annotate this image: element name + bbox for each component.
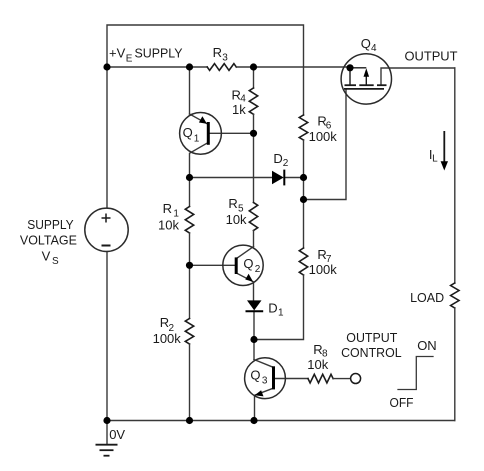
svg-text:R: R: [163, 201, 172, 216]
label R4 1k: [232, 87, 247, 117]
wire top bypass and R6 column top: [107, 25, 304, 115]
control input open terminal: [351, 374, 361, 384]
svg-text:D: D: [268, 301, 277, 316]
svg-text:10k: 10k: [307, 357, 328, 372]
resistor R7: [299, 248, 307, 275]
wire gate node to R7: [303, 200, 305, 249]
svg-text:SUPPLY: SUPPLY: [27, 217, 74, 232]
label D2: [273, 151, 288, 169]
wire D1 cathode stub: [253, 311, 255, 340]
label R3: [213, 45, 229, 64]
Q4 source leg: [349, 68, 351, 85]
waveform ON-OFF step: [398, 357, 433, 390]
wire Q3 emitter diagonal: [255, 389, 273, 421]
resistor R5: [249, 203, 257, 231]
node: 0V Q3 emitter: [250, 417, 257, 424]
node: gate node R6/R7: [300, 196, 307, 203]
svg-text:100k: 100k: [309, 129, 338, 144]
label R1 10k: [158, 201, 179, 232]
transistor Q1 emitter arrowhead (PNP into bar): [199, 116, 207, 123]
svg-text:10k: 10k: [158, 217, 179, 232]
wire Q2 base: [190, 264, 236, 266]
svg-text:R: R: [213, 45, 222, 60]
svg-text:+V: +V: [109, 45, 126, 60]
voltage source V_S circle: [85, 208, 128, 251]
svg-text:Q: Q: [250, 367, 260, 382]
IL current arrow: [443, 131, 445, 162]
node: R1 / R2 / Q2 base: [186, 262, 193, 269]
wire Q3 base to R8: [275, 378, 308, 380]
label Q4: [361, 36, 377, 54]
wire R4 top stub: [253, 67, 255, 88]
svg-text:L: L: [432, 154, 438, 165]
svg-text:100k: 100k: [153, 331, 182, 346]
wire left rail lower: [106, 252, 108, 421]
label +VE SUPPLY: [109, 45, 183, 64]
transistor Q3 emitter arrowhead (NPN out): [255, 390, 264, 396]
label R5 10k: [226, 196, 247, 227]
wire R5 bottom stub: [253, 231, 255, 247]
svg-text:LOAD: LOAD: [410, 290, 444, 305]
svg-text:Q: Q: [361, 36, 371, 51]
svg-text:OFF: OFF: [390, 395, 414, 410]
label R2 100k: [153, 315, 182, 346]
wire Q1 emitter diagonal: [190, 114, 207, 124]
label OUTPUT CONTROL: [341, 330, 402, 360]
transistor Q2 emitter arrowhead (NPN out): [245, 274, 253, 282]
svg-text:Q: Q: [183, 125, 193, 140]
node: D2 cathode / R6: [300, 174, 307, 181]
Q4 channel segment right: [377, 84, 387, 86]
resistor R6: [299, 115, 307, 140]
ground symbol bars: [96, 445, 118, 456]
node: 0V left: [103, 417, 110, 424]
label R6 100k: [309, 114, 338, 144]
wire R2 top stub: [189, 265, 191, 318]
wire Q4 gate run: [304, 90, 347, 200]
diode D1 cathode bar: [246, 310, 264, 312]
label D1: [268, 301, 284, 319]
transistor Q3 bar: [272, 366, 275, 389]
wire D2 cathode: [285, 177, 304, 179]
wire R4 bottom stub: [253, 114, 255, 133]
wire R7 bottom elbow: [254, 275, 304, 340]
Q4 channel segment left: [345, 84, 357, 86]
label SUPPLY VOLTAGE VS: [20, 217, 77, 267]
diode D2 cathode bar: [283, 170, 285, 186]
svg-text:S: S: [52, 256, 59, 267]
svg-text:3: 3: [222, 53, 228, 64]
wire R1 bottom stub: [189, 233, 191, 265]
svg-text:E: E: [126, 53, 133, 64]
resistor LOAD: [451, 283, 459, 308]
svg-text:D: D: [273, 151, 282, 166]
svg-text:OUTPUT: OUTPUT: [405, 49, 458, 64]
svg-text:2: 2: [255, 264, 261, 275]
transistor Q2 circle: [223, 245, 263, 285]
Q4 bulk arrow leg: [365, 75, 367, 86]
svg-text:Q: Q: [243, 256, 253, 271]
wire Q3 collector diagonal: [254, 360, 272, 367]
resistor R3: [207, 64, 236, 71]
resistor R4: [249, 88, 257, 114]
label R8 10k: [307, 342, 328, 372]
MOSFET Q4 circle: [341, 54, 391, 104]
diode D2 (pointing right): [272, 171, 284, 185]
svg-text:0V: 0V: [109, 427, 125, 442]
wire Q2 collector diagonal: [238, 247, 254, 258]
label R7 100k: [309, 247, 338, 277]
svg-text:10k: 10k: [226, 212, 247, 227]
label Q2: [243, 256, 260, 275]
node: Q1 emitter / +VE rail: [186, 63, 193, 70]
node: 0V R2: [186, 417, 193, 424]
node: Q4 source: [346, 64, 353, 71]
wire +VE rail left: [107, 66, 207, 68]
wire R8 to terminal: [333, 378, 351, 380]
voltage source plus sign: [102, 214, 111, 246]
node: D1 cathode / R7 / Q3 collector: [250, 336, 257, 343]
svg-text:2: 2: [283, 158, 289, 169]
label Q1: [183, 125, 200, 145]
svg-text:1: 1: [194, 134, 200, 145]
diode D1 (pointing down): [247, 300, 262, 310]
wire Q3 collector stub: [253, 340, 255, 360]
voltage source minus sign: [102, 245, 111, 247]
wire +VE rail right: [236, 66, 350, 68]
label IL: [429, 147, 438, 165]
transistor Q1 circle: [180, 112, 222, 154]
node: left rail / +VE rail: [103, 63, 110, 70]
wire right rail lower: [454, 308, 456, 421]
svg-text:R: R: [228, 196, 237, 211]
transistor Q2 bar: [235, 257, 238, 274]
wire R5 top stub: [253, 133, 255, 202]
Q4 gate bar: [344, 88, 384, 90]
svg-text:VOLTAGE: VOLTAGE: [20, 232, 77, 247]
svg-text:100k: 100k: [309, 262, 338, 277]
transistor Q1 bar: [207, 122, 210, 145]
svg-text:CONTROL: CONTROL: [341, 345, 402, 360]
label Q3: [250, 367, 268, 386]
svg-text:V: V: [42, 248, 51, 263]
resistor R8: [308, 374, 333, 383]
svg-text:4: 4: [371, 43, 377, 54]
svg-text:ON: ON: [417, 338, 437, 353]
resistor R1: [185, 207, 193, 234]
wire D2 anode: [190, 177, 273, 179]
wire R1 top stub: [189, 178, 191, 207]
wire Q4 drain to output: [381, 68, 455, 85]
wire Q2 emitter diagonal: [238, 274, 254, 301]
svg-text:3: 3: [262, 376, 268, 387]
node: Q1 base / R4 / R5: [250, 130, 257, 137]
ground stub: [106, 421, 108, 445]
svg-text:SUPPLY: SUPPLY: [135, 45, 183, 60]
wire R2 bottom stub: [189, 344, 191, 421]
Q4 channel segment middle: [359, 84, 373, 86]
wire R6 bottom to gate node: [303, 140, 305, 200]
wire bottom 0V rail: [107, 420, 455, 422]
svg-text:1k: 1k: [232, 102, 246, 117]
wire Q1 base: [210, 132, 254, 134]
node: R3/R4: [250, 63, 257, 70]
Q4 bulk arrowhead (P-channel, pointing up): [364, 68, 370, 77]
wire Q1 collector diagonal: [190, 143, 207, 177]
svg-text:OUTPUT: OUTPUT: [346, 330, 397, 345]
svg-text:1: 1: [278, 307, 284, 318]
Q4 source-bulk link: [350, 67, 366, 69]
wire right rail upper: [454, 68, 456, 283]
wire left rail upper: [106, 67, 108, 208]
node: Q1 collector / R1 / D2: [186, 174, 193, 181]
wire Q1 emitter stub: [189, 67, 191, 114]
resistor R2: [185, 319, 193, 345]
transistor Q3 circle: [245, 358, 286, 399]
